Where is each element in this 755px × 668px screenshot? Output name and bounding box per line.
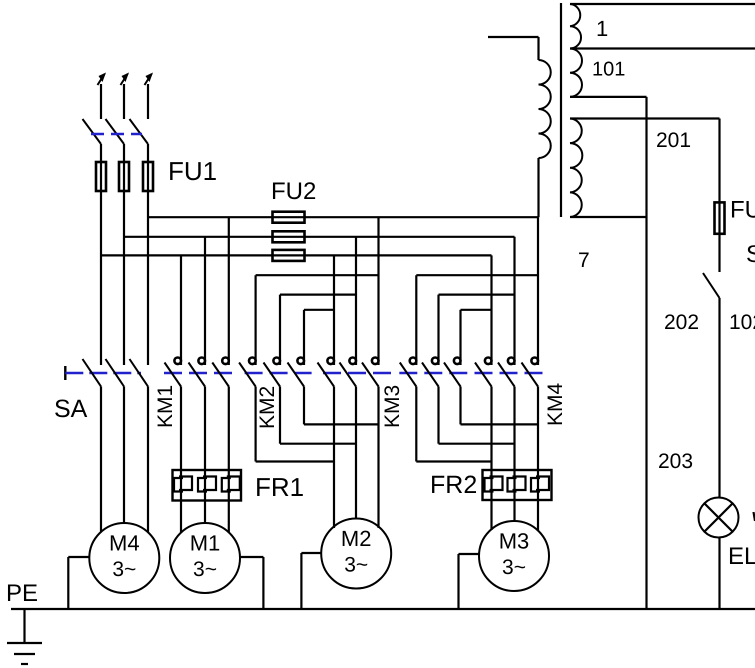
svg-text:101: 101 [592,59,625,81]
svg-text:SB: SB [746,241,755,268]
wire M4 earth tap [68,556,89,558]
contactor KM3 pole 1 [327,358,334,365]
wire winding c bottom [570,216,647,218]
motor M3 [479,521,549,591]
svg-text:102: 102 [729,311,755,334]
wire bus U to KM1 pole3 [228,217,230,365]
wire KM4 pole2 output [437,387,439,444]
KM4 linkage (blue dashed) [399,372,472,374]
wire FU to switch S [718,234,720,272]
wire bus U to KM3 pole3 [377,217,379,365]
SA linkage (blue dashed) [65,372,141,374]
fuse FU1-3 [143,162,153,191]
contactor KM4 pole 3 [454,358,461,365]
svg-text:M3: M3 [499,529,530,554]
KM3 linkage (blue dashed) [323,372,396,374]
thermal relay FR2 box [483,470,552,500]
svg-text:203: 203 [658,450,693,473]
wire KM3 pole3 to M2 [377,387,379,529]
contactor KM5 pole 3 [531,358,538,365]
wire KM2 pole1 input [255,275,257,365]
wire M1 earth tap [240,556,263,558]
wire L1 drop to SA [100,191,102,365]
wire KM5 pole 3 to FR2 [537,387,539,471]
wire FR1 to M1 [180,501,182,533]
contactor KM1 pole 1 [174,358,181,365]
transformer secondary winding c [570,119,582,218]
svg-text:FU1: FU1 [168,156,217,186]
wire KM2 pole2 input [279,295,281,365]
switch SA pole 1 [83,359,102,387]
wire L2 top [123,84,125,119]
transformer secondary winding a [570,4,581,49]
wire QS pole 3 to fuse FU1 [147,144,149,162]
wire bus V to KM3 pole2 [355,237,357,365]
wire QS pole 2 to fuse FU1 [123,144,125,162]
wire L3 drop to SA [147,191,149,365]
wire tap 7 (to control) [570,96,647,98]
wire KM5 pole 2 to FR2 [513,387,515,471]
wire KM5 pole 1 to FR2 [490,387,492,471]
wire KM3 pole2 to M2 [355,387,357,520]
svg-text:FR2: FR2 [430,471,477,499]
FR1 heater element 3 [222,478,231,492]
fuse FU2-1 [273,212,305,223]
wire KM4 pole3 input [459,310,461,365]
svg-text:KM1: KM1 [154,385,177,428]
wire switch to lamp EL [718,298,720,498]
fuse FU1-2 [119,162,129,191]
wire KM4 pole1 output [415,387,417,462]
wire KM4 pole2 input [437,295,439,365]
contactor KM2 pole 3 [297,358,304,365]
svg-text:M2: M2 [341,526,372,551]
svg-text:7: 7 [578,249,590,272]
svg-text:EL: EL [728,543,755,570]
wire bus W to KM3 pole1 [333,255,335,365]
svg-text:201: 201 [656,129,691,152]
thermal relay FR1 box [173,470,242,501]
FR2 heater element 1 [485,478,494,492]
transformer primary lead [488,36,539,38]
FR1 heater element 2 [198,478,207,492]
wire bus V end to KM4R pole2 [513,237,515,365]
svg-text:3~: 3~ [344,554,368,577]
wire SA pole2 to M4 [123,387,125,525]
motor M1 [170,523,240,593]
supply arrow L2 [121,74,128,85]
contactor KM4 pole 1 [410,358,417,365]
wire SA pole1 to M4 [100,387,102,533]
fuse FU2-2 [273,231,305,242]
wire lamp EL to bottom bus [718,538,720,610]
wire KM1 pole 3 to FR1 [228,387,230,471]
switch QS pole 3 [130,119,149,144]
contactor KM2 pole 1 [249,358,256,365]
wire 201 drop [718,119,720,203]
wire bus W end to KM4R pole1 [490,255,492,365]
wire bus V to KM1 pole2 [204,237,206,365]
switch QS pole 1 [83,119,102,144]
contactor KM2 pole 2 [273,358,280,365]
bus wire W (from L1) [101,254,492,256]
fuse FU lamp circuit [715,202,725,233]
svg-text:202: 202 [664,311,699,334]
contactor KM3 pole 3 [372,358,379,365]
switch SA pole 3 [130,359,149,387]
wire L2 drop to SA [123,191,125,365]
wire bus W to KM1 pole1 [180,255,182,365]
contactor KM1 pole 2 [198,358,205,365]
motor M4 [89,523,159,593]
wire tap 1 [570,3,755,5]
wire tap 201 [570,117,720,119]
motor M2 [321,519,391,589]
svg-text:3~: 3~ [502,556,526,579]
svg-text:3~: 3~ [193,558,217,581]
switch QS pole 2 [106,119,125,144]
lamp EL [699,498,739,538]
wire M3 earth tap [459,553,480,555]
wire control common (node 7) [645,97,647,609]
contactor KM5 pole 2 [508,358,515,365]
supply arrow L3 [145,74,152,85]
wire KM2 pole3 output [303,387,305,425]
svg-text:PE: PE [6,580,38,607]
wire KM2 pole1 output [255,387,257,462]
wire KM2 pole2 output [279,387,281,444]
svg-text:M1: M1 [190,531,221,556]
transformer core [560,3,562,217]
wire tap 101 [570,47,755,49]
wire QS pole 1 to fuse FU1 [100,144,102,162]
transformer secondary winding b [570,49,582,97]
fuse FU1-1 [96,162,106,191]
contactor KM5 pole 1 [485,358,492,365]
switch SA linkage bar [64,366,66,380]
FR2 heater element 3 [531,478,540,492]
svg-text:FU: FU [730,197,755,224]
svg-text:FR1: FR1 [255,472,304,502]
switch SA pole 2 [106,359,125,387]
wire KM3 pole1 to M2 [333,387,335,529]
transformer primary winding [539,60,551,158]
wire M2 earth tap [301,552,321,554]
contactor KM3 pole 2 [349,358,356,365]
svg-text:1: 1 [596,16,608,41]
contactor KM1 pole 3 [222,358,229,365]
wire transformer/bus U to KM4R pole3 [537,217,539,365]
svg-text:3~: 3~ [112,558,136,581]
svg-text:KM2: KM2 [256,386,279,429]
KM2 linkage (blue dashed) [245,372,312,374]
svg-text:FU2: FU2 [271,178,316,205]
clipped mark right edge [754,512,755,521]
bus wire U (from L3) [148,216,539,218]
wire FR2 to M3 [490,500,492,530]
PE bus wire [11,608,755,610]
wire KM4 pole3 output [459,387,461,425]
bus wire V (from L2) [124,236,515,238]
switch S lamp [703,273,720,298]
svg-text:M4: M4 [109,531,140,556]
wire KM1 pole 2 to FR1 [204,387,206,471]
wire KM1 pole 1 to FR1 [180,387,182,471]
contactor KM4 pole 2 [432,358,439,365]
svg-text:SA: SA [54,395,88,423]
wire SA pole3 to M4 [147,387,149,533]
wire KM2 pole3 input [303,310,305,365]
ground symbol [23,609,25,643]
FR2 heater element 2 [508,478,517,492]
wire primary to bus U [537,158,539,217]
svg-text:KM3: KM3 [381,385,404,428]
FR1 heater element 1 [174,478,183,492]
KM5 linkage (blue dashed) [475,372,548,374]
QS linkage (blue dashed) [91,133,142,135]
svg-text:KM4: KM4 [544,383,567,427]
wire KM4 pole1 input [415,275,417,365]
KM1 linkage (blue dashed) [164,372,237,374]
supply arrow L1 [98,74,105,85]
wire L3 top [147,84,149,119]
fuse FU2-3 [273,250,305,261]
wire L1 top [100,84,102,119]
